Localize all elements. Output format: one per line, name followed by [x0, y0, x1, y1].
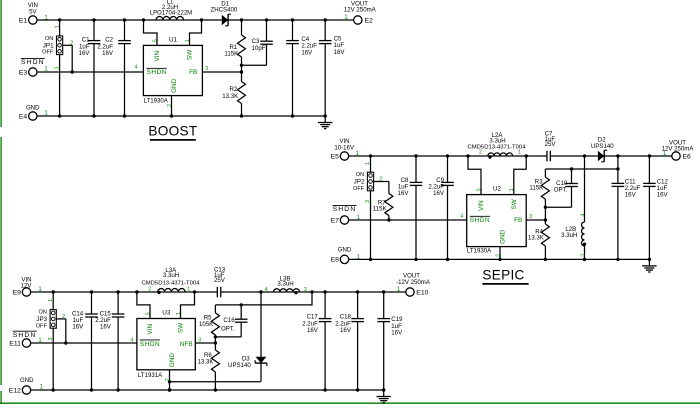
- svg-text:VIN: VIN: [154, 50, 161, 61]
- svg-text:12V: 12V: [21, 283, 33, 290]
- svg-text:E5: E5: [331, 153, 340, 160]
- wire GND rail SEPIC: [349, 258, 651, 261]
- U1 pin 4 number: [135, 65, 138, 71]
- wire U3 GND pin 2 to GND rail and D3 return: [168, 370, 261, 392]
- svg-text:13.3K: 13.3K: [222, 93, 238, 100]
- ground symbol INVERTING: [377, 390, 391, 403]
- wire SHDN E11 to U3 pin 4: [31, 341, 137, 344]
- L2A pin 1 number: [518, 150, 521, 156]
- svg-text:5: 5: [146, 312, 152, 315]
- wire SHDN E7 to U2 pin 4: [349, 218, 467, 221]
- capacitor C4 2.2uF 16V: [286, 20, 317, 116]
- svg-text:JP1: JP1: [43, 42, 54, 49]
- svg-text:E11: E11: [9, 340, 21, 347]
- svg-text:1: 1: [48, 299, 54, 302]
- svg-text:SW: SW: [511, 198, 518, 209]
- svg-text:E3: E3: [19, 69, 28, 76]
- svg-text:115K: 115K: [373, 206, 387, 213]
- jumper JP2 with ON/OFF labels: [353, 156, 389, 259]
- title BOOST: [148, 123, 197, 140]
- svg-text:SHDN: SHDN: [13, 332, 37, 339]
- terminal E7 (SHDN): [331, 206, 357, 225]
- JP1 pin 3 number: [54, 67, 60, 70]
- JP3 pin 3 number: [48, 338, 54, 341]
- node 1 label at E11: [38, 337, 42, 344]
- JP2 pin 2 number: [379, 176, 382, 182]
- svg-text:SW: SW: [187, 49, 194, 60]
- L3B pin 4 number: [265, 287, 268, 293]
- jumper JP1 with ON/OFF labels: [42, 20, 72, 116]
- U3 pin 2 number: [165, 378, 171, 381]
- resistor R2 13.3K: [222, 72, 245, 116]
- capacitor C12 1uF 16V: [643, 156, 668, 259]
- wire node B to D3: [260, 292, 262, 357]
- capacitor C17 2.2uF 16V: [302, 292, 331, 390]
- svg-text:2: 2: [165, 378, 171, 381]
- capacitor C10 OPT.: [545, 169, 577, 207]
- svg-text:JP3: JP3: [36, 316, 47, 323]
- svg-text:LPO1704-222M: LPO1704-222M: [150, 11, 192, 17]
- svg-text:16V: 16V: [433, 190, 445, 197]
- svg-text:1: 1: [344, 14, 348, 21]
- svg-text:GND: GND: [171, 78, 178, 93]
- svg-text:NFB: NFB: [180, 341, 193, 348]
- resistor R3 115K: [529, 169, 549, 220]
- svg-text:LT1930A: LT1930A: [467, 248, 492, 255]
- wire SHDN E3 to U1 pin 4: [37, 70, 143, 73]
- wire U3 SW pin 1 stub: [181, 292, 195, 319]
- svg-text:16V: 16V: [301, 49, 313, 56]
- svg-text:E9: E9: [13, 289, 22, 296]
- svg-text:1: 1: [185, 39, 191, 42]
- svg-text:25V: 25V: [545, 141, 557, 148]
- svg-text:-12V 250mA: -12V 250mA: [396, 279, 431, 286]
- sheet border left (green): [0, 0, 2, 404]
- JP1 pin 2 number: [70, 40, 73, 46]
- svg-text:OPT.: OPT.: [554, 187, 568, 194]
- svg-text:UPS140: UPS140: [228, 362, 251, 369]
- JP2 pin 1 number: [365, 162, 371, 165]
- wire U1 VIN pin 5 stub: [144, 20, 158, 45]
- terminal E9 (VIN 12V): [13, 276, 33, 296]
- wire U2 SW pin 1 stub: [514, 156, 526, 195]
- svg-text:GND: GND: [338, 246, 352, 253]
- IC U1 LT1930A: [143, 37, 202, 105]
- svg-text:E1: E1: [19, 17, 28, 24]
- svg-text:UPS140: UPS140: [591, 143, 614, 150]
- resistor R5 105K: [199, 305, 219, 343]
- svg-text:LT1931A: LT1931A: [138, 372, 163, 379]
- svg-text:U3: U3: [162, 309, 171, 316]
- capacitor C16 OPT.: [215, 305, 247, 337]
- svg-text:3: 3: [54, 67, 60, 70]
- diode D1 ZHCS400: [211, 1, 238, 26]
- U3 pin 1 number: [176, 312, 182, 315]
- U2 pin 2 number: [495, 254, 501, 257]
- wire node B feedback tap R3/C10 top: [545, 167, 619, 170]
- capacitor C1 1uF 16V: [79, 20, 101, 116]
- svg-text:105K: 105K: [199, 321, 213, 328]
- U1 pin 1 number: [185, 39, 191, 42]
- svg-text:U2: U2: [493, 186, 502, 193]
- svg-text:ZHCS400: ZHCS400: [211, 7, 238, 14]
- svg-text:16V: 16V: [72, 324, 84, 331]
- svg-text:3.3uH: 3.3uH: [277, 281, 293, 288]
- svg-text:16V: 16V: [79, 50, 91, 57]
- svg-text:10-16V: 10-16V: [334, 144, 355, 151]
- terminal E10 (VOUT -12V 250mA): [396, 272, 431, 296]
- svg-text:ON: ON: [39, 310, 47, 316]
- wire U2 GND pin 2 to GND rail: [499, 247, 501, 260]
- svg-text:16V: 16V: [657, 192, 669, 199]
- node 1 label at E9: [38, 286, 42, 293]
- svg-text:4: 4: [131, 337, 134, 343]
- svg-text:12V 250mA: 12V 250mA: [662, 146, 695, 153]
- svg-text:E6: E6: [683, 153, 692, 160]
- node 1 label at E3: [44, 66, 48, 73]
- svg-text:16V: 16V: [340, 327, 352, 334]
- capacitor C9 2.2uF 16V: [428, 156, 453, 259]
- svg-text:5V: 5V: [29, 8, 37, 15]
- svg-text:2: 2: [70, 40, 73, 46]
- L2B pin 4 number: [581, 214, 587, 217]
- svg-text:1: 1: [509, 188, 515, 191]
- svg-text:3: 3: [581, 254, 587, 257]
- svg-text:1: 1: [187, 286, 190, 292]
- title SEPIC: [482, 267, 528, 284]
- svg-text:2: 2: [495, 254, 501, 257]
- svg-text:16V: 16V: [334, 49, 346, 56]
- terminal E11 (SHDN): [9, 331, 36, 347]
- svg-text:16V: 16V: [391, 329, 403, 336]
- svg-text:C16: C16: [223, 317, 235, 324]
- wire VIN rail INV E9 to C13: [31, 290, 218, 293]
- svg-text:E12: E12: [9, 387, 21, 394]
- svg-text:16V: 16V: [625, 192, 637, 199]
- svg-text:16V: 16V: [102, 50, 114, 57]
- svg-text:E4: E4: [19, 113, 28, 120]
- wire GND rail BOOST: [37, 114, 327, 117]
- capacitor C5 1uF 16V: [319, 20, 345, 116]
- wire GND rail INV: [31, 388, 386, 391]
- JP2 pin 3 number: [365, 200, 371, 203]
- coupled inductor L2B 3.3uH: [561, 156, 586, 259]
- svg-text:2: 2: [479, 150, 482, 156]
- svg-text:U1: U1: [169, 37, 178, 44]
- svg-text:E7: E7: [331, 217, 340, 224]
- U2 pin 5 number: [477, 188, 483, 191]
- svg-text:13.3K: 13.3K: [197, 359, 213, 366]
- svg-text:5: 5: [153, 39, 159, 42]
- ground symbol BOOST: [318, 116, 332, 129]
- wire U1 FB pin 3 to divider: [202, 70, 243, 73]
- resistor R6 13.3K: [197, 343, 219, 390]
- node 1 label at E7: [357, 214, 361, 221]
- capacitor C18 2.2uF 16V: [335, 292, 364, 390]
- L3B pin 3 number: [304, 287, 307, 293]
- svg-text:GND: GND: [169, 353, 176, 368]
- svg-text:VIN: VIN: [478, 200, 485, 211]
- svg-text:SHDN: SHDN: [140, 341, 160, 348]
- terminal E1 (VIN 5V): [19, 2, 38, 24]
- svg-text:1: 1: [663, 150, 667, 157]
- svg-text:1: 1: [176, 312, 182, 315]
- node 1 label at E1: [44, 14, 48, 21]
- svg-text:SHDN: SHDN: [21, 59, 45, 66]
- svg-text:4: 4: [460, 214, 463, 220]
- JP3 pin 2 number: [62, 314, 65, 320]
- capacitor C3 10pF: [240, 20, 273, 67]
- U3 pin 5 number: [146, 312, 152, 315]
- jumper JP3 with ON/OFF labels: [36, 292, 66, 390]
- svg-text:1: 1: [365, 162, 371, 165]
- U3 pin 3 number: [198, 338, 201, 344]
- capacitor C8 1uF 16V: [398, 156, 423, 259]
- wire U3 NFB pin 3 to divider: [195, 341, 217, 344]
- wire VOUT feedback tap R5/C16 top: [215, 292, 312, 307]
- U1 pin 5 number: [153, 39, 159, 42]
- svg-text:2: 2: [62, 314, 65, 320]
- svg-text:12V 250mA: 12V 250mA: [344, 7, 377, 14]
- node 1 label at E5: [356, 150, 360, 157]
- capacitor C19 1uF 16V: [377, 292, 403, 390]
- svg-text:GND: GND: [20, 377, 34, 384]
- svg-text:2: 2: [148, 286, 151, 292]
- wire U1 GND pin 2 to GND rail: [171, 96, 173, 116]
- svg-text:4: 4: [265, 287, 268, 293]
- wire U3 VIN pin 5 stub: [137, 292, 150, 319]
- svg-text:3: 3: [205, 66, 208, 72]
- L3A pin 1 number: [187, 286, 190, 292]
- svg-text:E2: E2: [365, 17, 374, 24]
- svg-text:16V: 16V: [100, 324, 112, 331]
- inductor L1 2.2uH LPO1704-222M: [150, 0, 192, 20]
- svg-text:OFF: OFF: [36, 323, 48, 329]
- terminal E6 (VOUT 12V 250mA): [662, 139, 695, 160]
- wire C13 to L3B to E10: [221, 290, 406, 293]
- terminal E4 (GND): [19, 105, 40, 121]
- terminal E2 (VOUT 12V 250mA): [344, 1, 377, 25]
- terminal E3 (SHDN): [19, 59, 45, 77]
- wire D2 cathode to E6: [604, 154, 672, 157]
- coupled inductor L3A 3.3uH CMD5D13-4371-T004: [142, 267, 201, 294]
- sheet border bottom (green): [0, 402, 700, 404]
- JP1 pin 1 number: [54, 25, 60, 28]
- U1 pin 2 number: [167, 104, 173, 107]
- svg-text:3: 3: [304, 287, 307, 293]
- resistor R4 13.3K: [528, 220, 549, 259]
- svg-text:1: 1: [54, 25, 60, 28]
- resistor R1 115K: [224, 20, 245, 72]
- capacitor C11 2.2uF 16V: [612, 156, 641, 259]
- svg-text:16V: 16V: [307, 327, 319, 334]
- diode D2 UPS140: [591, 137, 614, 162]
- svg-text:OFF: OFF: [42, 50, 54, 56]
- svg-text:LT1930A: LT1930A: [144, 98, 169, 105]
- capacitor C7 1uF 25V (series): [545, 130, 557, 161]
- svg-text:VIN: VIN: [147, 324, 154, 335]
- svg-text:4: 4: [581, 214, 587, 217]
- svg-text:SEPIC: SEPIC: [482, 267, 524, 282]
- U2 pin 4 number: [460, 214, 463, 220]
- U2 pin 3 number: [529, 214, 532, 220]
- svg-text:SHDN: SHDN: [470, 217, 490, 224]
- capacitor C13 1uF 25V (series): [214, 266, 226, 297]
- svg-text:10pF: 10pF: [252, 45, 266, 52]
- L2B pin 3 number: [581, 254, 587, 257]
- L2A pin 2 number: [479, 150, 482, 156]
- svg-text:2: 2: [379, 176, 382, 182]
- L3A pin 2 number: [148, 286, 151, 292]
- node 1 label at E12: [40, 384, 44, 391]
- svg-text:SHDN: SHDN: [333, 206, 357, 213]
- coupled inductor L3B 3.3uH: [274, 275, 300, 294]
- svg-text:115K: 115K: [224, 51, 238, 58]
- node 1 label at E8: [357, 253, 361, 260]
- svg-text:E8: E8: [331, 257, 340, 264]
- svg-text:115K: 115K: [529, 185, 543, 192]
- node 1 label at E6: [663, 150, 667, 157]
- wire U2 VIN pin 5 stub: [468, 156, 481, 195]
- svg-text:BOOST: BOOST: [148, 123, 197, 138]
- svg-text:E10: E10: [416, 289, 428, 296]
- diode D3 UPS140: [228, 356, 267, 382]
- svg-text:GND: GND: [26, 105, 40, 112]
- svg-text:5: 5: [477, 188, 483, 191]
- svg-text:25V: 25V: [214, 277, 226, 284]
- svg-text:ON: ON: [356, 172, 364, 178]
- svg-text:3.3uH: 3.3uH: [561, 232, 577, 239]
- terminal E8 (GND): [331, 246, 352, 263]
- ground symbol SEPIC: [642, 259, 656, 272]
- svg-text:FB: FB: [514, 217, 522, 224]
- svg-text:16V: 16V: [398, 190, 410, 197]
- U3 pin 4 number: [131, 337, 134, 343]
- resistor R7 115K: [373, 182, 393, 221]
- svg-text:1: 1: [518, 150, 521, 156]
- wire U2 FB pin 3 to divider: [526, 218, 547, 221]
- svg-text:FB: FB: [189, 69, 197, 76]
- IC U3 LT1931A: [137, 309, 195, 379]
- svg-text:3.3uH: 3.3uH: [163, 272, 179, 279]
- svg-text:JP2: JP2: [354, 179, 365, 186]
- capacitor C15 2.2uF 16V: [95, 292, 124, 390]
- wire C7 to D2 node B: [550, 154, 598, 157]
- svg-text:3: 3: [529, 214, 532, 220]
- U2 pin 1 number: [509, 188, 515, 191]
- svg-text:1: 1: [397, 286, 401, 293]
- U1 pin 3 number: [205, 66, 208, 72]
- capacitor C2 2.2uF 16V: [97, 20, 130, 116]
- capacitor C14 1uF 16V: [72, 292, 98, 390]
- svg-text:OFF: OFF: [353, 186, 365, 192]
- terminal E12 (GND): [9, 377, 34, 394]
- terminal E5 (VIN 10-16V): [331, 138, 355, 160]
- svg-text:3: 3: [365, 200, 371, 203]
- svg-text:4: 4: [135, 65, 138, 71]
- node 1 label at E4: [44, 110, 48, 117]
- svg-text:ON: ON: [45, 36, 53, 42]
- wire VIN rail SEPIC E5 to C7: [349, 154, 547, 157]
- coupled inductor L2A 3.3uH CMD5D13-4371-T004: [468, 132, 527, 159]
- svg-text:SW: SW: [178, 322, 185, 333]
- svg-text:GND: GND: [500, 229, 507, 244]
- wire U1 SW pin 1 stub: [190, 20, 202, 45]
- node 1 label at E2: [344, 14, 348, 21]
- svg-text:SHDN: SHDN: [147, 69, 167, 76]
- node 1 label at E10: [397, 286, 401, 293]
- JP3 pin 1 number: [48, 299, 54, 302]
- svg-text:OPT.: OPT.: [221, 325, 235, 332]
- wire VIN rail BOOST E1 to E2 with junctions: [37, 18, 354, 21]
- svg-text:2: 2: [167, 104, 173, 107]
- svg-text:3: 3: [48, 338, 54, 341]
- svg-text:13.3K: 13.3K: [528, 234, 544, 241]
- IC U2 LT1930A: [467, 186, 527, 255]
